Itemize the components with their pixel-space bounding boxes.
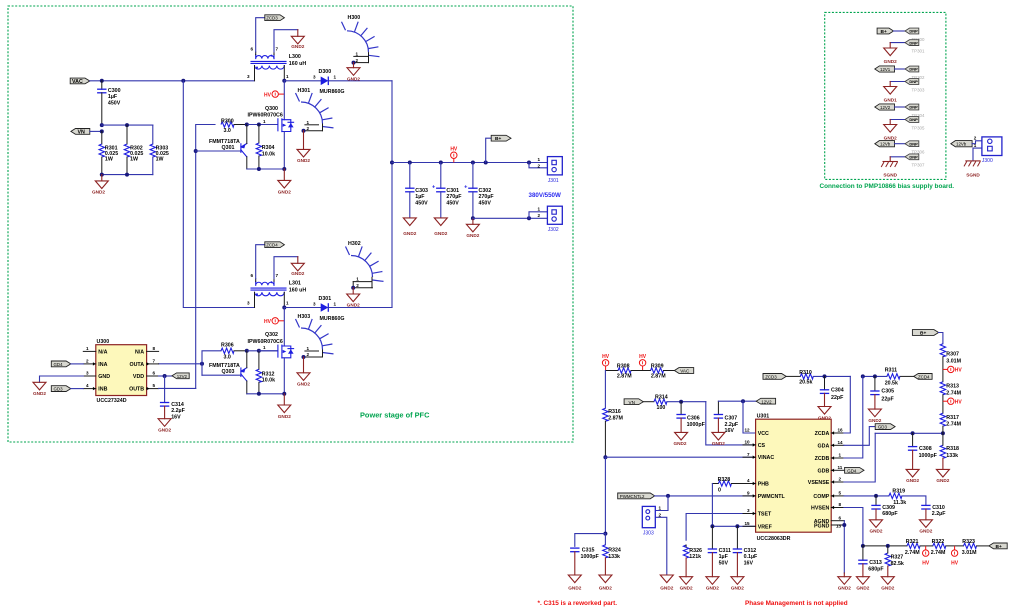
transistor Q301 FMMT718TA (PNP gate clamp) <box>196 125 247 170</box>
node source/GND junction phase B <box>282 392 286 396</box>
svg-text:GND2: GND2 <box>712 441 725 446</box>
wire R311 to ZCDB corner <box>863 375 887 377</box>
wire CS sense route <box>706 402 756 445</box>
svg-text:PHB: PHB <box>758 482 769 488</box>
svg-text:GD3: GD3 <box>878 425 888 430</box>
ground GND2 below shunt <box>92 175 108 195</box>
IC U301 UCC28063DR PFC controller <box>743 414 844 542</box>
svg-text:22pF: 22pF <box>831 395 844 401</box>
svg-text:ZCD4: ZCD4 <box>266 243 278 248</box>
svg-text:C307: C307 <box>725 415 738 421</box>
node H300 pin2 <box>352 61 356 65</box>
svg-text:R317: R317 <box>946 415 959 421</box>
svg-text:FMMT718TA: FMMT718TA <box>209 363 240 369</box>
node C306 junction <box>679 400 683 404</box>
wire VN to R314 <box>643 401 654 403</box>
svg-text:12: 12 <box>745 428 751 433</box>
wire GDA to GD3 flag <box>844 427 875 446</box>
svg-text:450V: 450V <box>479 200 492 206</box>
svg-text:2: 2 <box>307 126 310 131</box>
svg-text:1: 1 <box>659 506 662 511</box>
wire R323 to B+ flag <box>977 545 989 547</box>
capacitor C301 270uF 450V (polarized) <box>432 163 462 218</box>
svg-text:16V: 16V <box>725 428 735 434</box>
wire B+ to R307 <box>939 333 943 344</box>
node VN junction <box>100 129 104 133</box>
svg-text:GND2: GND2 <box>33 391 46 396</box>
wire R308 to R309 <box>631 370 651 372</box>
svg-text:R319: R319 <box>892 489 905 495</box>
test point TP302 (DNP) <box>905 66 925 80</box>
svg-text:GND2: GND2 <box>568 586 581 591</box>
ground SGND at J300 <box>964 161 981 178</box>
svg-text:GND2: GND2 <box>403 231 416 236</box>
flag 12V1 <box>875 66 895 72</box>
node R304 top junction <box>257 123 261 127</box>
wire GD4 to INA <box>71 363 84 365</box>
IC U300 UCC27324D gate driver <box>83 339 158 404</box>
svg-text:N/A: N/A <box>98 349 107 355</box>
svg-text:GND2: GND2 <box>818 415 831 420</box>
svg-text:2: 2 <box>356 283 359 288</box>
power port HV (phase A drain) <box>264 91 284 98</box>
node shunt bottom mid <box>125 173 129 177</box>
svg-text:1µF: 1µF <box>108 94 118 100</box>
svg-text:270µF: 270µF <box>479 194 495 200</box>
svg-text:1: 1 <box>263 119 266 124</box>
svg-text:GND2: GND2 <box>838 586 851 591</box>
svg-text:C303: C303 <box>415 188 428 194</box>
wire output riser D300/D301 to bulk rail <box>391 81 393 308</box>
flag B+ (HVSEN divider top) <box>912 330 938 337</box>
svg-text:5: 5 <box>839 491 842 496</box>
ground GND2 at Q300 source <box>278 169 291 194</box>
wire J303 pin2 to ground <box>655 517 667 575</box>
resistor R326 121k (TSET) <box>683 545 702 577</box>
node J302 jog <box>527 216 531 220</box>
svg-text:12V2: 12V2 <box>880 105 891 110</box>
svg-text:GD4: GD4 <box>54 362 64 367</box>
ground GND2 at C304 <box>818 407 831 421</box>
svg-text:GND2: GND2 <box>919 529 932 534</box>
flag B+ (bulk output) <box>491 135 511 142</box>
svg-text:7: 7 <box>747 452 750 457</box>
svg-text:7: 7 <box>276 47 279 52</box>
svg-text:3.0: 3.0 <box>224 354 231 360</box>
svg-text:2: 2 <box>356 58 359 63</box>
svg-text:VDD: VDD <box>133 374 144 380</box>
wire B+ tap riser <box>486 138 492 162</box>
ground GND2 at C311 <box>706 577 719 591</box>
wire AGND/PGND to ground <box>843 521 845 573</box>
svg-text:HVSEN: HVSEN <box>811 506 829 512</box>
wire shunt top branch row <box>102 124 153 126</box>
svg-text:1000pF: 1000pF <box>687 422 706 428</box>
ground GND2 at C310 <box>919 520 932 534</box>
svg-text:1W: 1W <box>130 157 138 163</box>
resistor R327 82.5k <box>885 546 904 577</box>
ground GND2 at L301 pin7 <box>291 257 304 277</box>
wire R309 to VAC flag <box>664 370 675 372</box>
connector J300 <box>974 136 1002 164</box>
svg-text:7: 7 <box>276 273 279 278</box>
svg-text:TP301: TP301 <box>912 48 925 53</box>
svg-text:12Vb: 12Vb <box>956 142 967 147</box>
svg-text:R307: R307 <box>946 352 959 358</box>
svg-text:Q302: Q302 <box>265 332 278 338</box>
svg-text:VCC: VCC <box>758 431 769 437</box>
svg-text:ZCD3: ZCD3 <box>266 16 278 21</box>
svg-text:C310: C310 <box>932 505 945 511</box>
svg-text:16V: 16V <box>744 560 754 566</box>
svg-text:6: 6 <box>251 273 254 278</box>
wire VCC riser <box>743 401 756 433</box>
ground SGND row8 <box>881 157 898 178</box>
svg-text:11.3k: 11.3k <box>893 500 906 506</box>
wire divider lower leg <box>604 457 606 533</box>
ground GND2 at L300 pin7 <box>291 30 304 50</box>
wire shunt bottom row <box>102 174 153 176</box>
node shunt bottom left <box>100 173 104 177</box>
ground GND2 at C314 <box>158 419 171 433</box>
svg-text:SGND: SGND <box>966 173 980 178</box>
svg-text:GD3: GD3 <box>54 387 64 392</box>
svg-text:J300: J300 <box>982 158 993 164</box>
svg-text:2.2µF: 2.2µF <box>932 511 946 517</box>
connector J303 <box>642 506 661 537</box>
node B+ tap <box>484 161 488 165</box>
wire Q302 source lead <box>283 358 285 394</box>
wire OUTA to gate node <box>159 363 202 365</box>
svg-text:B+: B+ <box>495 136 501 142</box>
wire R319 to C310 <box>902 496 926 506</box>
svg-text:H301: H301 <box>298 88 311 94</box>
svg-text:D300: D300 <box>319 69 332 75</box>
wire HVSEN divider row <box>863 545 907 547</box>
ground GND2 at C313 <box>856 577 869 591</box>
svg-text:UCC27324D: UCC27324D <box>97 398 127 404</box>
flag 12V2 (VDD supply) <box>172 373 189 379</box>
wire L301 pin6 to ZCD4 flag <box>256 245 265 279</box>
flag 12Vb (to J300) <box>951 141 972 147</box>
flag GD3 (gate drive A) <box>875 424 895 430</box>
resistor R306 3.0 (gate) <box>221 342 247 360</box>
ground GND2 at C307 <box>712 432 725 446</box>
flag 12V2 <box>875 104 895 110</box>
svg-text:2.74M: 2.74M <box>946 390 961 396</box>
wire VN to shunt node <box>90 130 102 132</box>
wire ZCDB route <box>844 376 863 458</box>
svg-text:2.74M: 2.74M <box>931 550 946 556</box>
transistor Q303 FMMT718TA (PNP gate clamp) <box>202 351 247 394</box>
svg-text:B+: B+ <box>881 29 887 35</box>
wire GND1 to TP303 <box>890 81 905 83</box>
svg-text:270µF: 270µF <box>446 194 462 200</box>
svg-text:C304: C304 <box>831 387 844 393</box>
svg-text:C314: C314 <box>171 402 184 408</box>
node C302 bottom / J302 return <box>471 216 475 220</box>
svg-text:PWMCNTL: PWMCNTL <box>758 494 786 500</box>
svg-text:1: 1 <box>356 277 359 282</box>
svg-text:GND2: GND2 <box>278 189 291 194</box>
wire Q302 gate lead <box>259 350 277 352</box>
node H303 pin2 <box>302 355 306 359</box>
wire VAC sense row <box>606 370 618 372</box>
flag VN (port, points left) <box>71 129 90 136</box>
wire 12V2/VCC row <box>718 400 756 402</box>
node R327 tap <box>886 544 890 548</box>
resistor R321 2.74M <box>905 539 920 556</box>
svg-text:450V: 450V <box>108 100 121 106</box>
svg-text:1W: 1W <box>105 157 113 163</box>
resistor R301 0.025 1W <box>99 131 118 174</box>
wire L300 pin6 to ZCD3 flag <box>256 18 265 52</box>
wire VINAC row <box>605 456 755 458</box>
wire PHB to VREF tie <box>711 484 713 527</box>
wire OUTB gate riser (from U300 pin5) <box>196 125 215 389</box>
test point TP304 (DNP) <box>905 104 925 118</box>
svg-text:Q300: Q300 <box>265 106 278 112</box>
wire Q300 drain lead <box>283 81 285 120</box>
svg-text:R324: R324 <box>608 548 621 554</box>
svg-text:ZCD4: ZCD4 <box>918 375 930 380</box>
node gate riser / Q301 base junction <box>194 149 198 153</box>
wire Q300 source lead <box>283 132 285 169</box>
wire R321 to R322 <box>920 545 933 547</box>
ground GND2 row2 <box>884 43 897 64</box>
svg-text:GND2: GND2 <box>297 382 310 387</box>
svg-text:HV: HV <box>951 561 959 567</box>
svg-text:2.74M: 2.74M <box>905 550 920 556</box>
node VDD / C314 junction <box>163 374 167 378</box>
node C309 tap <box>874 494 878 498</box>
svg-text:Q301: Q301 <box>222 145 235 151</box>
power port HV (bottom tap 2) <box>951 546 959 567</box>
node R304 bottom <box>257 167 261 171</box>
svg-text:12V1: 12V1 <box>880 67 891 72</box>
node C303 top <box>408 161 412 165</box>
ground GND2 at R327 <box>881 577 894 591</box>
svg-text:TP305: TP305 <box>912 125 925 130</box>
wire bulk rail row <box>392 162 547 164</box>
svg-text:13: 13 <box>836 523 842 528</box>
svg-text:GND2: GND2 <box>347 76 360 81</box>
wire U300 GND pin to ground <box>40 376 84 382</box>
capacitor C310 2.2uF <box>921 505 946 520</box>
svg-text:1: 1 <box>286 74 289 79</box>
svg-text:2: 2 <box>839 477 842 482</box>
svg-text:1: 1 <box>334 75 337 80</box>
wire GND2 to TP301 <box>890 42 905 44</box>
wire VREF row <box>712 525 755 527</box>
inductor L301 160uH (PFC choke with aux winding) <box>247 273 306 307</box>
svg-text:R306: R306 <box>221 342 234 348</box>
svg-text:R312: R312 <box>262 372 275 378</box>
svg-text:16: 16 <box>838 428 844 433</box>
svg-text:J301: J301 <box>548 178 559 184</box>
ground GND1 row4 <box>884 82 897 103</box>
svg-text:1000pF: 1000pF <box>919 453 938 459</box>
svg-text:VSENSE: VSENSE <box>808 480 830 486</box>
svg-text:0: 0 <box>718 487 721 493</box>
svg-text:1000pF: 1000pF <box>581 554 600 560</box>
ground GND2 at U300 <box>33 382 46 396</box>
resistor R307 3.01M <box>940 344 961 365</box>
capacitor C308 1000pF <box>908 433 938 469</box>
svg-text:20.5k: 20.5k <box>885 381 898 387</box>
svg-text:GND2: GND2 <box>660 586 673 591</box>
ground GND2 at J303 <box>660 575 673 591</box>
resistor R309 2.87M <box>651 363 667 379</box>
svg-text:1: 1 <box>334 301 337 306</box>
svg-text:2.87M: 2.87M <box>617 374 632 380</box>
svg-text:R321: R321 <box>906 539 919 545</box>
node PGND junction <box>842 523 846 527</box>
svg-text:1: 1 <box>307 120 310 125</box>
ground GND2 row6 <box>884 120 897 141</box>
wire J302 return row <box>473 217 548 219</box>
svg-text:3.01M: 3.01M <box>962 550 977 556</box>
svg-text:MUR860G: MUR860G <box>320 89 345 95</box>
node C311/VREF junction <box>710 524 714 528</box>
wire L300 pin7 to GND2 <box>274 30 298 52</box>
svg-text:R304: R304 <box>262 145 275 151</box>
node C300/R301 branch junction <box>100 123 104 127</box>
svg-text:R310: R310 <box>799 370 812 376</box>
svg-text:2.2µF: 2.2µF <box>725 422 739 428</box>
svg-text:GND2: GND2 <box>936 478 949 483</box>
svg-text:5: 5 <box>153 383 156 388</box>
svg-text:2: 2 <box>974 136 977 141</box>
wire B+ to TP300 <box>894 30 906 32</box>
capacitor C314 2.2uF 16V <box>160 376 186 420</box>
svg-text:H303: H303 <box>298 314 311 320</box>
svg-text:HV: HV <box>264 319 272 325</box>
wire GD3 to INB <box>71 388 84 390</box>
svg-text:ZCDB: ZCDB <box>815 456 830 462</box>
svg-text:R314: R314 <box>655 395 668 401</box>
svg-text:2.87M: 2.87M <box>608 415 623 421</box>
svg-text:C302: C302 <box>479 188 492 194</box>
svg-text:IPW60R070C6: IPW60R070C6 <box>248 339 283 345</box>
test point TP303 (DNP) <box>905 79 925 93</box>
svg-text:160 uH: 160 uH <box>289 61 307 67</box>
ground GND2 at C303 <box>403 218 416 236</box>
svg-text:R323: R323 <box>962 539 975 545</box>
svg-text:4: 4 <box>86 383 89 388</box>
svg-text:MUR860G: MUR860G <box>320 316 345 322</box>
svg-text:680pF: 680pF <box>868 566 884 572</box>
ground GND2 at H300 <box>347 63 360 82</box>
svg-text:VN: VN <box>78 130 86 136</box>
svg-text:C301: C301 <box>446 188 459 194</box>
svg-text:HV: HV <box>264 92 272 98</box>
node C308 tap <box>911 431 915 435</box>
wire R310 to ZCDA corner <box>813 375 850 377</box>
svg-text:HV: HV <box>955 368 963 374</box>
svg-text:VN: VN <box>629 400 635 405</box>
flag 12V2 (supply) <box>756 398 775 404</box>
wire R314 to CS corner <box>667 401 706 403</box>
svg-text:C312: C312 <box>744 548 757 554</box>
power port HV (divider tap 1) <box>943 366 963 373</box>
svg-text:2.87M: 2.87M <box>651 374 666 380</box>
wire OUTA node to R306 and Q303 base <box>202 351 221 375</box>
capacitor C312 0.1uF 16V <box>733 526 758 576</box>
svg-text:12Vb: 12Vb <box>880 142 891 147</box>
wire SGND to TP307 <box>890 156 905 158</box>
ground GND2 at H302 <box>347 288 360 308</box>
svg-text:GD4: GD4 <box>847 468 857 473</box>
svg-text:1: 1 <box>538 207 541 212</box>
power port HV (bulk) <box>450 147 458 163</box>
svg-text:15: 15 <box>745 521 751 526</box>
resistor R310 20.5k <box>799 370 813 385</box>
wire pin1 to D301 <box>284 307 320 309</box>
svg-text:3: 3 <box>313 301 316 306</box>
svg-text:2: 2 <box>86 359 89 364</box>
diode D301 MUR860G <box>313 296 345 322</box>
svg-text:C300: C300 <box>108 88 121 94</box>
ground GND2 at R318 <box>936 469 949 483</box>
test point TP306 (DNP) <box>905 141 925 155</box>
flag ZCD4 (to R311) <box>914 374 932 380</box>
node H302 pin2 <box>351 286 355 290</box>
svg-text:C315: C315 <box>582 548 595 554</box>
svg-text:GND2: GND2 <box>706 586 719 591</box>
flag VN (current sense) <box>624 399 643 405</box>
wire TSET row <box>686 514 756 541</box>
wire COMP row <box>844 495 889 497</box>
test point TP305 (DNP) <box>905 117 925 131</box>
svg-text:VREF: VREF <box>758 524 773 530</box>
svg-text:100: 100 <box>657 405 666 411</box>
wire J303 pin1 branch <box>655 496 668 511</box>
svg-text:VINAC: VINAC <box>758 455 775 461</box>
heatsink H300 <box>342 15 380 63</box>
svg-text:9: 9 <box>747 491 750 496</box>
node L301 pin1 / drain junction <box>282 306 286 310</box>
wire D300 cathode to output riser <box>328 80 392 82</box>
resistor R300 3.0 (gate) <box>221 118 247 134</box>
node VINAC junction <box>603 455 607 459</box>
flag B+ (bias feed) <box>877 28 893 35</box>
wire R313 to R317 <box>942 395 944 413</box>
svg-text:HV: HV <box>639 354 647 360</box>
svg-text:R309: R309 <box>651 363 664 369</box>
ground GND2 at C301 <box>434 218 447 236</box>
svg-text:GND2: GND2 <box>680 586 693 591</box>
svg-text:UCC28063DR: UCC28063DR <box>757 536 791 542</box>
capacitor C306 1000pF <box>676 402 705 433</box>
svg-text:GND2: GND2 <box>92 190 105 195</box>
ground GND2 at H301 <box>297 131 310 163</box>
svg-text:GND2: GND2 <box>599 586 612 591</box>
power stage dashed border box <box>8 6 573 442</box>
ground GND2 at H303 <box>297 357 310 387</box>
svg-text:6: 6 <box>251 47 254 52</box>
ground GND2 at C315 <box>568 575 581 591</box>
svg-text:10.0k: 10.0k <box>262 378 275 384</box>
svg-text:3.0: 3.0 <box>224 128 231 134</box>
wire D301 cathode to output riser <box>328 307 392 309</box>
ground GND2 at AGND/PGND <box>838 573 851 591</box>
node L300 pin1 / drain junction <box>282 79 286 83</box>
node R302 top <box>125 123 129 127</box>
wire left riser VAC to L301 pin3 row <box>183 81 254 308</box>
svg-text:Power stage of PFC: Power stage of PFC <box>360 411 430 420</box>
inductor L300 160uH (PFC choke with aux winding) <box>247 47 306 81</box>
